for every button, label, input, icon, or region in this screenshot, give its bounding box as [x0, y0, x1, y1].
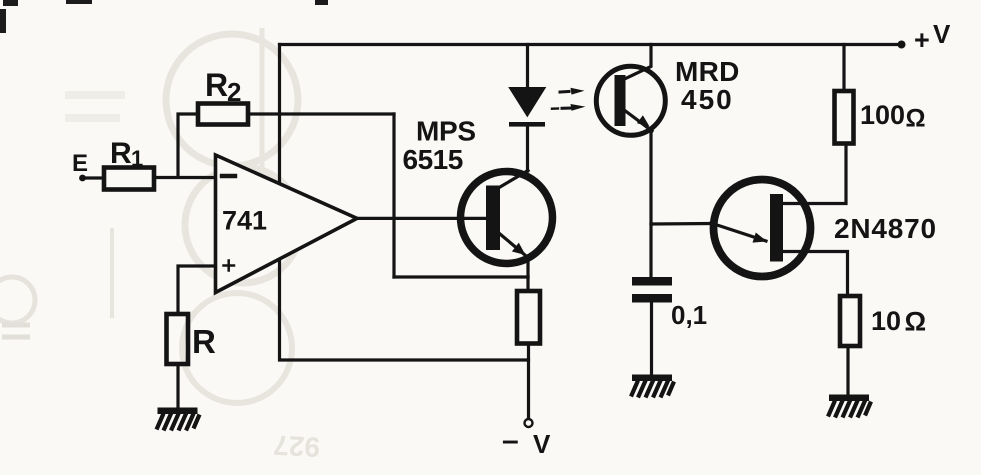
wire E terminal to R1	[84, 176, 104, 179]
transistor Q3 2N4870 circle	[714, 180, 811, 277]
phototransistor Q2 base bar	[615, 75, 626, 126]
LED D1 cathode bar	[509, 122, 545, 127]
resistor R1	[104, 168, 154, 190]
svg-text:E: E	[72, 150, 88, 177]
svg-text:V: V	[533, 429, 551, 459]
svg-text:V: V	[933, 19, 951, 49]
svg-text:MRD: MRD	[675, 56, 740, 87]
wire emitter resistor to -V terminal	[527, 344, 530, 418]
wire +V drop to op-amp V+ pin	[278, 45, 281, 184]
ground below capacitor	[631, 375, 674, 398]
node -V open terminal	[525, 419, 533, 427]
Q2 emitter arrowhead	[637, 115, 650, 126]
wire Q3 emitter diagonal	[711, 223, 766, 241]
wire 100ohm to rail	[842, 45, 845, 92]
wire Q2 emitter node to Q3 emitter	[651, 222, 712, 226]
wire emitter node horizontal	[394, 275, 528, 278]
svg-text:0,1: 0,1	[671, 300, 707, 330]
wire LED anode drop from rail	[526, 45, 529, 89]
wire top +V rail	[280, 43, 902, 46]
wire Q2 emitter down to capacitor	[649, 131, 652, 278]
svg-text:10: 10	[871, 306, 901, 336]
wire op-amp V- pin down to -V rail	[280, 260, 529, 360]
Q3 emitter arrowhead	[753, 233, 768, 243]
svg-text:+: +	[914, 25, 930, 55]
Q1 emitter arrowhead	[512, 243, 526, 255]
wire rail to Q2 collector	[626, 45, 652, 79]
capacitor C1 top plate	[632, 277, 672, 286]
wire Q3 base2 to 100ohm	[779, 144, 846, 204]
svg-text:Ω: Ω	[905, 307, 927, 337]
op-amp inverting input dash	[222, 174, 235, 178]
wire op-amp + input lead	[178, 266, 216, 314]
resistor RE (unlabeled emitter resistor)	[517, 291, 540, 344]
wire R to ground	[176, 364, 179, 407]
wire Q1 emitter diagonal	[500, 234, 529, 258]
wire node to emitter resistor	[526, 277, 529, 291]
wire Q1 collector diagonal	[500, 171, 528, 188]
svg-text:R: R	[205, 67, 228, 103]
resistor 10ohm	[840, 296, 860, 346]
transistor Q1 base bar	[486, 186, 500, 251]
node E terminal dot	[79, 175, 86, 182]
wire LED cathode to Q1 collector	[526, 127, 529, 172]
node +V dot	[898, 41, 906, 49]
svg-text:100: 100	[860, 100, 905, 130]
svg-text:–: –	[502, 424, 519, 457]
wire Q2 emitter diagonal	[626, 111, 653, 131]
svg-text:2: 2	[227, 77, 241, 107]
ground below 10ohm	[828, 395, 871, 418]
capacitor C1 bottom plate	[632, 294, 672, 303]
svg-text:1: 1	[131, 146, 143, 171]
wire 10ohm to ground	[846, 346, 849, 395]
scan ghost artifacts (decorative)	[0, 28, 321, 463]
op-amp U1 741	[216, 155, 358, 293]
svg-text:450: 450	[681, 84, 734, 115]
svg-text:2N4870: 2N4870	[834, 213, 937, 244]
wire feedback vertical down to Q1 emitter node	[392, 114, 395, 277]
svg-text:R: R	[192, 323, 216, 360]
wire capacitor to ground	[650, 303, 653, 376]
wire tap up to R2 left lead	[178, 114, 198, 177]
svg-text:Ω: Ω	[906, 105, 926, 133]
light arrows from LED to Q2	[552, 88, 586, 111]
resistor R2	[198, 104, 248, 125]
wire op-amp output to Q1 base	[357, 217, 487, 220]
svg-text:R: R	[110, 137, 132, 170]
svg-text:6515: 6515	[403, 144, 463, 175]
ground below R	[157, 408, 200, 431]
op-amp non-inverting plus mark	[224, 261, 235, 271]
resistor R	[167, 314, 189, 364]
wire Q1 emitter to node	[526, 257, 529, 277]
svg-text:927: 927	[273, 429, 321, 462]
resistor 100ohm	[835, 91, 854, 144]
wire Q3 base1 to 10ohm	[780, 252, 848, 297]
svg-text:MPS: MPS	[416, 116, 476, 147]
svg-text:741: 741	[222, 206, 267, 236]
transistor Q1 MPS6515 circle	[461, 172, 553, 264]
wire R2 right lead	[248, 112, 394, 115]
LED D1 (anode triangle)	[510, 88, 545, 116]
phototransistor Q2 MRD450 circle	[596, 66, 665, 135]
transistor Q3 base bar	[770, 194, 783, 262]
wire R1 to op-amp inverting input	[154, 176, 216, 179]
